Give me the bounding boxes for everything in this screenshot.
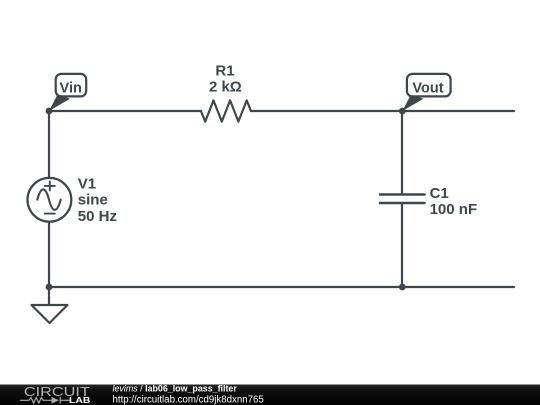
label R1 value [209, 62, 242, 95]
svg-text:V1: V1 [78, 175, 96, 192]
wire: V1 bottom down to ground node [48, 222, 50, 287]
svg-text:levims / lab06_low_pass_filter: levims / lab06_low_pass_filter [113, 384, 238, 394]
node flag Vout [402, 74, 450, 111]
svg-text:Vout: Vout [412, 80, 443, 96]
svg-text:2 kΩ: 2 kΩ [209, 78, 242, 95]
wire: Vout node down to C1 top plate [401, 111, 403, 195]
svg-text:LAB: LAB [69, 395, 90, 405]
capacitor C1 [380, 195, 425, 204]
svg-text:sine: sine [78, 192, 108, 209]
voltage source V1 [28, 178, 72, 222]
node ground-left junction dot [46, 284, 53, 291]
node Vout junction dot [399, 108, 406, 115]
svg-text:C1: C1 [430, 185, 449, 202]
label V1 value [78, 175, 117, 224]
node Vin junction dot [46, 108, 53, 115]
label C1 value [430, 185, 478, 218]
wire: ground stem [48, 287, 50, 305]
svg-text:R1: R1 [215, 62, 234, 79]
resistor R1 [201, 100, 251, 121]
wire: C1 bottom plate down to bottom wire [401, 203, 403, 287]
ground [32, 305, 68, 323]
svg-text:Vin: Vin [60, 80, 82, 96]
node bottom-right junction dot [399, 284, 406, 291]
footer bar [0, 385, 540, 405]
footer title text [113, 384, 264, 405]
wire top: resistor to right end [251, 110, 514, 112]
svg-text:50 Hz: 50 Hz [78, 208, 117, 225]
node flag Vin [49, 74, 86, 111]
CircuitLab logo wordmark [20, 384, 91, 405]
wire top: Vin node to resistor [49, 110, 201, 112]
wire: Vin node down to V1 top [48, 111, 50, 178]
svg-text:100 nF: 100 nF [430, 201, 478, 218]
svg-text:http://circuitlab.com/cd9jk8dx: http://circuitlab.com/cd9jk8dxnn765 [113, 394, 264, 405]
wire bottom: ground node to right end [49, 286, 514, 288]
